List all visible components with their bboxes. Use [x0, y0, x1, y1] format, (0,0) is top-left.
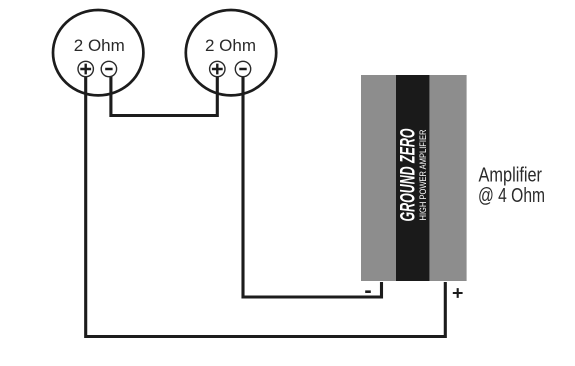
svg-text:GROUND ZERO: GROUND ZERO [397, 129, 420, 222]
svg-text:@ 4 Ohm: @ 4 Ohm [478, 185, 545, 207]
wire SP1- to SP2+ (series link) [111, 70, 217, 116]
wire SP1+ to amp + (bottom run) [86, 70, 446, 337]
amplifier U1 body [361, 75, 467, 281]
label Amplifier @ 4 Ohm [478, 165, 545, 208]
amplifier U1 black stripe [396, 75, 429, 281]
svg-text:2 Ohm: 2 Ohm [205, 36, 256, 55]
terminal SP1 minus [101, 61, 116, 76]
svg-text:2 Ohm: 2 Ohm [74, 36, 125, 55]
svg-text:HIGH POWER AMPLIFIER: HIGH POWER AMPLIFIER [418, 129, 428, 220]
wire SP2- to amp - [243, 70, 382, 297]
terminal SP2 plus [210, 61, 225, 76]
terminal SP1 plus [78, 61, 93, 76]
amp terminal label plus [453, 288, 463, 298]
speaker SP2 body [186, 10, 276, 95]
amp terminal label minus [365, 290, 371, 293]
speaker SP1 body [53, 10, 143, 95]
terminal SP2 minus [235, 61, 250, 76]
svg-text:Amplifier: Amplifier [479, 165, 543, 187]
